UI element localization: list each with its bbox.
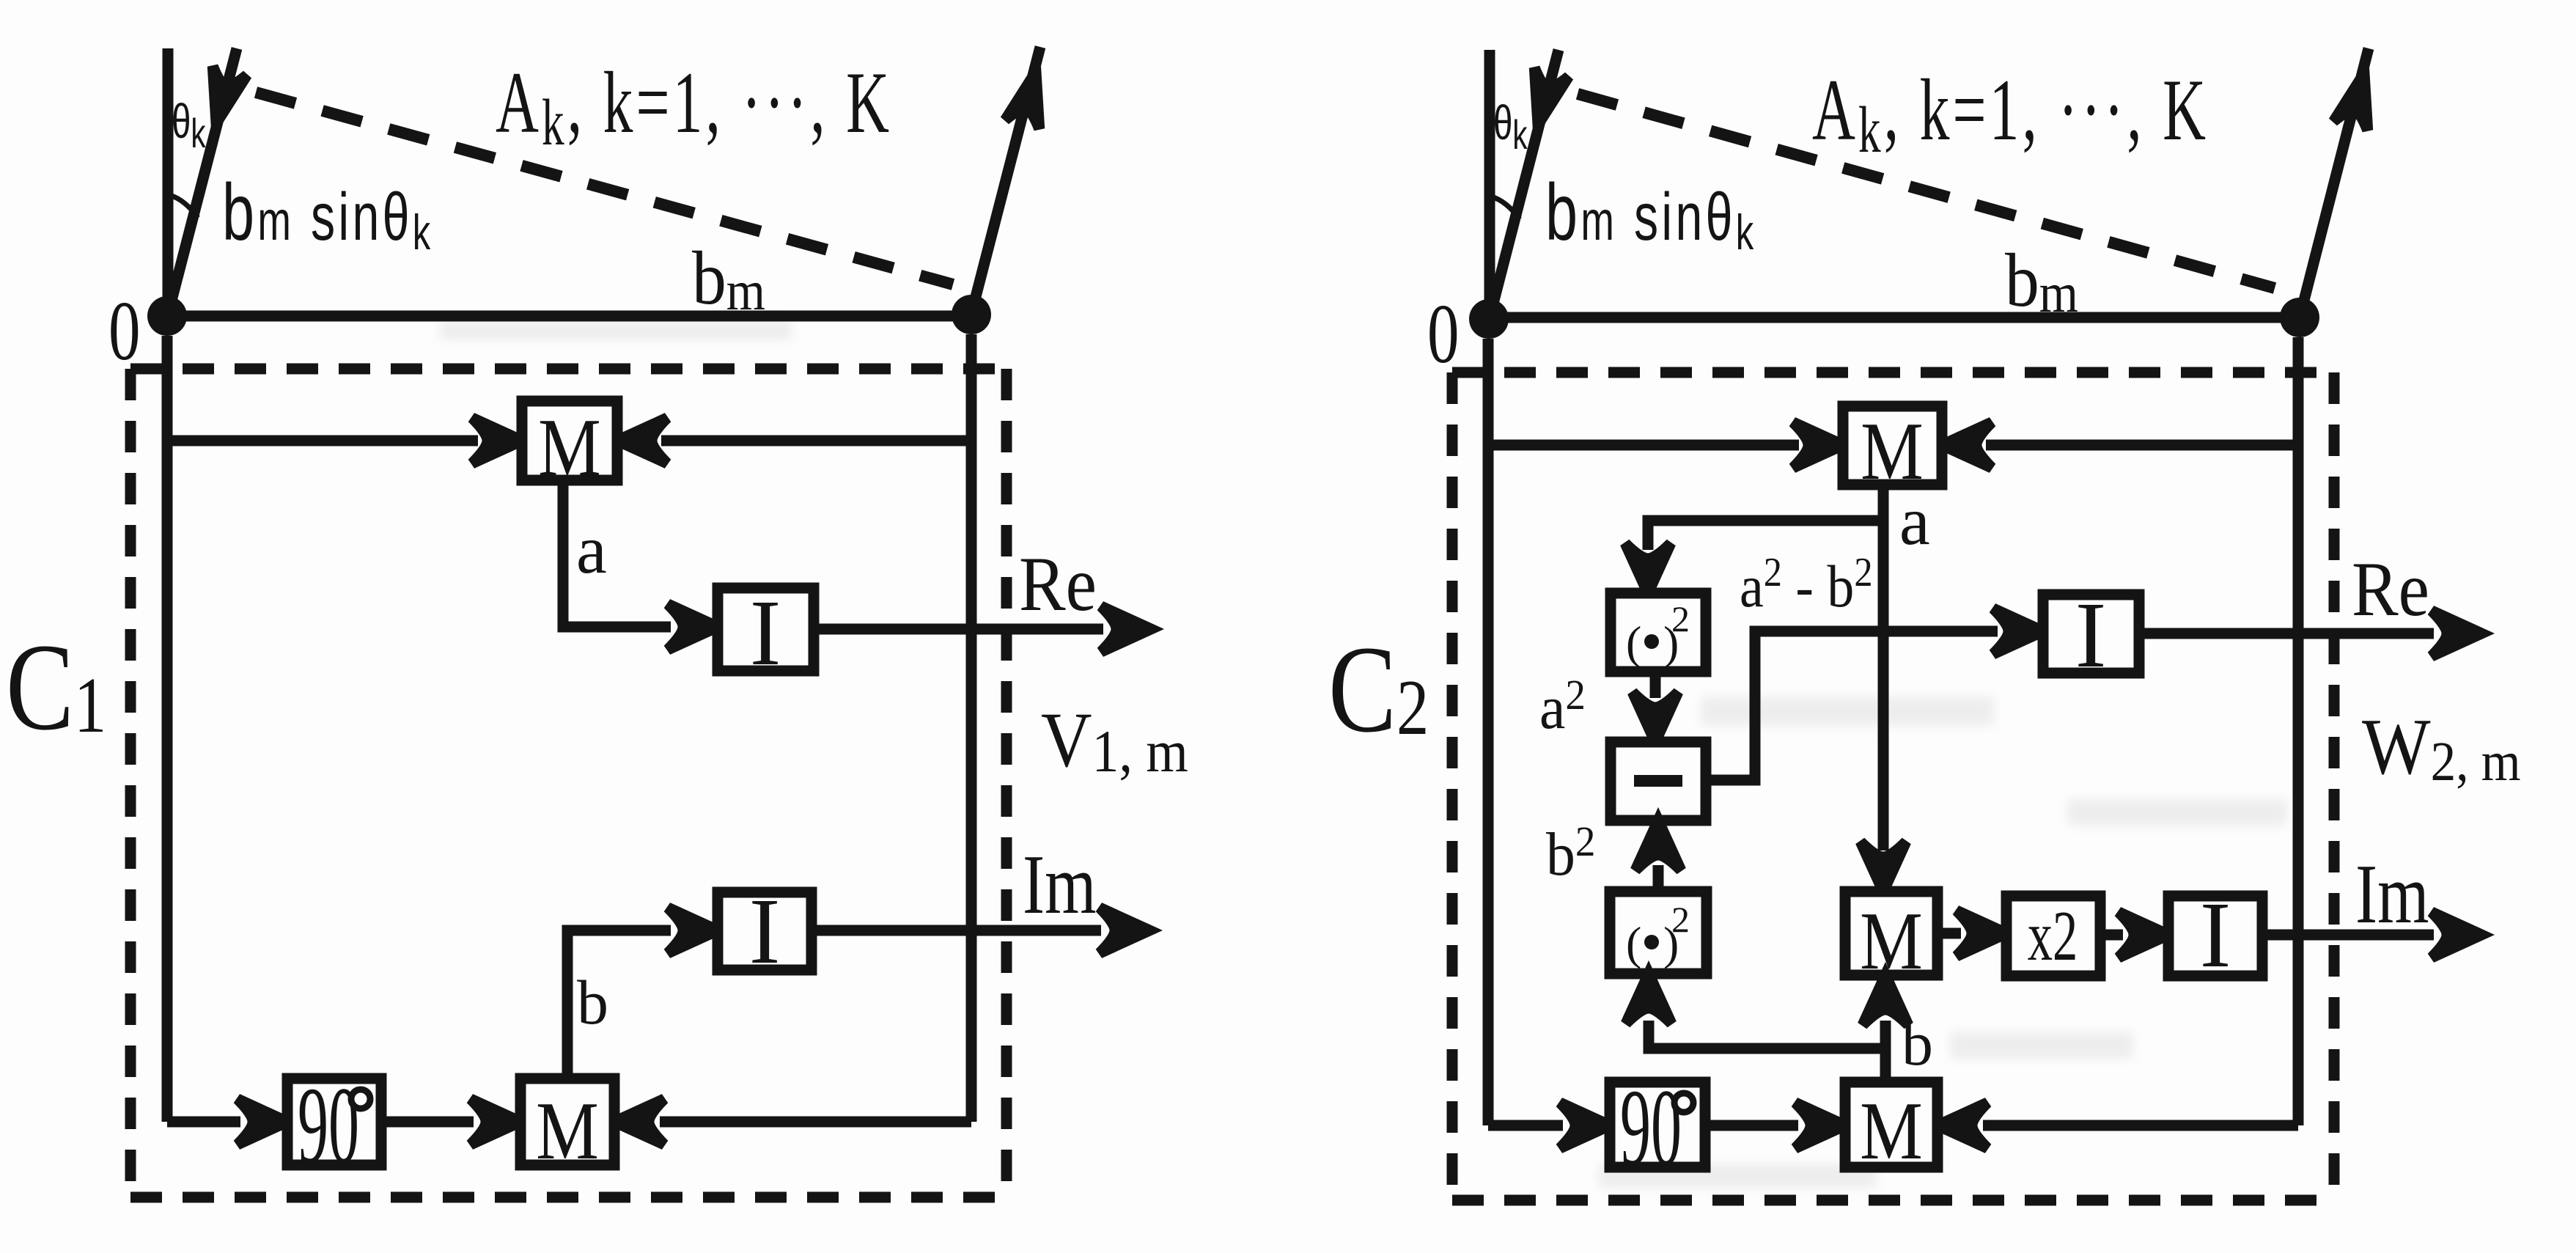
arrow on antenna 2 ray (up)	[1005, 67, 1053, 129]
wire: bottom squarer up to subtractor	[1653, 865, 1664, 892]
multiplier M top	[522, 401, 617, 480]
arrow into top M right	[617, 418, 667, 463]
arrow into bottom squarer	[1626, 974, 1671, 1024]
svg-text:x2: x2	[2028, 897, 2078, 976]
arrow into Im integrator	[668, 908, 718, 953]
wire: branch from a to top squarer	[1648, 521, 1883, 550]
arrow into subtractor top	[1633, 692, 1678, 742]
svg-text:2: 2	[1671, 899, 1690, 940]
node 0 (left antenna dot)	[147, 296, 187, 336]
wire: Im output	[812, 925, 1101, 936]
svg-text:(: (	[1626, 917, 1641, 969]
svg-text:Ak, k=1, ···, K: Ak, k=1, ···, K	[1812, 62, 2209, 166]
svg-text:a2 - b2: a2 - b2	[1740, 550, 1873, 620]
subtractor box	[1611, 742, 1706, 820]
node 0 (left antenna dot)	[1469, 299, 1509, 339]
baseline wire b_m	[167, 311, 971, 322]
arrow into 90 deg box	[1560, 1103, 1610, 1148]
svg-text:b: b	[577, 967, 608, 1037]
arrow into bottom M left	[471, 1099, 520, 1144]
wire: subtractor output to Re integrator	[1706, 631, 1998, 780]
arrow into Re integrator	[1993, 609, 2043, 654]
svg-text:b: b	[1902, 1008, 1933, 1079]
arrow into mid M top	[1861, 842, 1906, 892]
arrow into bottom M right	[614, 1099, 664, 1144]
svg-text:bm sinθk: bm sinθk	[222, 167, 434, 260]
svg-text:M: M	[536, 1085, 599, 1176]
svg-text:C1: C1	[6, 617, 106, 756]
squarer (.)^2 top	[1611, 593, 1706, 672]
antenna 1 incoming ray line	[1489, 50, 1559, 320]
wire: top squarer to subtractor	[1650, 672, 1661, 698]
svg-text:Im: Im	[1023, 837, 1097, 931]
wire: right input to top multiplier	[661, 436, 971, 447]
svg-text:a: a	[576, 512, 607, 588]
svg-text:90: 90	[1620, 1068, 1682, 1188]
arrow on antenna 1 ray (down toward node 0)	[199, 66, 247, 128]
antenna 2 ray line	[971, 47, 1040, 314]
node antenna 2 dot	[952, 295, 991, 334]
wire b: bottom M output up and right to integrator	[567, 930, 671, 1079]
wire a: top M output down to mid multiplier	[1878, 485, 1889, 850]
svg-text:bm sinθk: bm sinθk	[1545, 167, 1757, 260]
svg-text:M: M	[1860, 895, 1923, 986]
multiplier M bottom	[520, 1079, 614, 1165]
integrator I (Im)	[2168, 896, 2262, 976]
svg-text:Re: Re	[2352, 545, 2429, 632]
dashed correlator boundary box C1	[130, 369, 1007, 1197]
arrow into top M left	[472, 418, 522, 463]
svg-text:Ak, k=1, ···, K: Ak, k=1, ···, K	[496, 55, 892, 159]
squarer (.)^2 bottom	[1610, 892, 1707, 974]
svg-text:0: 0	[108, 284, 141, 378]
svg-text:Re: Re	[1019, 540, 1097, 627]
svg-text:90: 90	[298, 1065, 359, 1186]
svg-text:I: I	[750, 581, 781, 685]
wire: 90 deg to bottom M	[381, 1117, 474, 1128]
svg-text:M: M	[1860, 1085, 1923, 1176]
arrow into Im integrator	[2119, 912, 2168, 958]
wire: left signal vertical	[162, 336, 173, 1122]
arrow into bottom M right	[1937, 1103, 1987, 1148]
svg-text:W2, m: W2, m	[2362, 702, 2521, 793]
wire: right signal vertical	[966, 334, 977, 1122]
svg-text:I: I	[2200, 883, 2231, 987]
wire: right signal into bottom M	[660, 1117, 971, 1128]
wire: mid M to x2	[1937, 928, 1961, 939]
wire a: M output to integrator	[563, 480, 671, 627]
dashed correlator boundary box C2	[1452, 372, 2334, 1200]
multiplier M bottom	[1845, 1082, 1937, 1167]
arrow into bottom M left	[1795, 1103, 1845, 1148]
node antenna 2 dot	[2280, 298, 2319, 337]
wire: Re output	[814, 624, 1103, 635]
svg-text:2: 2	[1671, 598, 1690, 639]
wire b: bottom M up to mid M	[1880, 1021, 1891, 1082]
phase shifter 90 deg	[287, 1079, 381, 1165]
arrow into top M left	[1793, 422, 1843, 468]
wire: x2 to Im integrator	[2100, 930, 2123, 941]
gain x2 box	[2006, 896, 2100, 976]
antenna 2 ray line	[2300, 48, 2369, 317]
arrow into x2	[1957, 911, 2006, 956]
integrator I (Re)	[2043, 595, 2139, 673]
svg-text:(: (	[1626, 617, 1641, 669]
angle arc theta_k	[169, 195, 198, 218]
dashed wavefront A_k	[256, 92, 953, 284]
svg-text:M: M	[538, 402, 601, 493]
svg-text:0: 0	[1427, 287, 1460, 381]
wire: left input to top multiplier	[1488, 440, 1799, 451]
svg-text:a: a	[1899, 483, 1930, 559]
arrow on antenna 2 ray (up)	[2333, 69, 2381, 131]
baseline wire b_m	[1489, 312, 2300, 323]
arrow Re output	[2432, 611, 2481, 656]
svg-text:V1, m: V1, m	[1041, 697, 1188, 784]
arrow into top M right	[1942, 422, 1992, 468]
svg-text:Im: Im	[2355, 846, 2429, 941]
svg-text:I: I	[749, 879, 781, 983]
arrow Im output	[2432, 912, 2481, 958]
svg-text:C2: C2	[1328, 620, 1429, 758]
integrator I (Im)	[718, 892, 812, 970]
wire: left signal into 90 deg box	[167, 1117, 240, 1128]
integrator I (Re)	[718, 588, 814, 671]
antenna 1 vertical reference line	[1484, 50, 1495, 319]
arrow Re output	[1101, 606, 1151, 652]
antenna 1 incoming ray line	[167, 48, 237, 317]
arrow into Re integrator	[668, 604, 718, 650]
svg-text:bm: bm	[692, 237, 765, 322]
arrow into top squarer	[1625, 543, 1671, 593]
phase shifter 90 deg	[1610, 1082, 1705, 1167]
wire: 90 deg to bottom M	[1705, 1120, 1798, 1131]
arrow on antenna 1 ray (down toward node 0)	[1521, 67, 1569, 129]
arrow into 90 deg box	[238, 1099, 287, 1144]
faint scan bleed-through smudges	[440, 320, 2287, 1188]
wire: right signal into bottom M	[1983, 1120, 2298, 1131]
wire: right signal vertical	[2293, 337, 2304, 1125]
wire: Im output	[2262, 930, 2434, 941]
svg-text:θk: θk	[172, 95, 206, 156]
multiplier M top	[1843, 406, 1942, 485]
wire: left input to top multiplier	[167, 436, 478, 447]
svg-text:θk: θk	[1493, 96, 1528, 158]
svg-text:a2: a2	[1539, 672, 1586, 742]
wire: left signal into 90 deg box	[1488, 1120, 1563, 1131]
wire: right input to top multiplier	[1986, 440, 2298, 451]
svg-text:bm: bm	[2005, 239, 2078, 324]
wire: Re output	[2139, 628, 2434, 639]
wire: branch from b to bottom squarer	[1649, 1021, 1885, 1048]
arrow Im output	[1100, 908, 1149, 953]
dashed wavefront A_k	[1578, 94, 2275, 288]
wire: left signal vertical	[1483, 339, 1494, 1125]
antenna 1 vertical reference line	[163, 48, 174, 316]
arrow into subtractor bottom	[1635, 820, 1681, 870]
multiplier M mid	[1845, 892, 1937, 975]
svg-text:b2: b2	[1546, 819, 1595, 889]
angle arc theta_k	[1491, 196, 1520, 219]
arrow into mid M bottom	[1863, 975, 1908, 1025]
svg-text:I: I	[2075, 583, 2107, 687]
